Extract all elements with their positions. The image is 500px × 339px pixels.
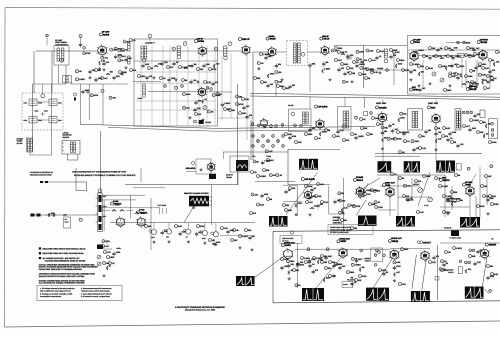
svg-text:.001: .001 bbox=[496, 61, 500, 64]
svg-text:6.8K: 6.8K bbox=[328, 255, 333, 258]
svg-text:.01: .01 bbox=[204, 98, 207, 101]
svg-text:470K: 470K bbox=[270, 73, 275, 76]
svg-text:CONV: CONV bbox=[138, 97, 144, 100]
svg-text:.047: .047 bbox=[216, 63, 220, 66]
svg-text:.01: .01 bbox=[112, 262, 115, 265]
svg-text:6AU6: 6AU6 bbox=[323, 38, 330, 41]
svg-text:VOL: VOL bbox=[252, 155, 256, 158]
svg-text:470: 470 bbox=[364, 59, 367, 62]
svg-text:1500: 1500 bbox=[242, 112, 246, 115]
svg-text:1 MEG: 1 MEG bbox=[442, 185, 449, 188]
svg-text:.05: .05 bbox=[402, 151, 405, 154]
svg-text:.047: .047 bbox=[420, 211, 424, 214]
svg-text:.001: .001 bbox=[284, 265, 288, 268]
svg-text:2.2K: 2.2K bbox=[432, 261, 437, 264]
svg-text:6.8K: 6.8K bbox=[446, 127, 451, 130]
svg-text:1500: 1500 bbox=[446, 211, 450, 214]
svg-text:68: 68 bbox=[109, 265, 111, 268]
svg-text:1500: 1500 bbox=[344, 63, 348, 66]
svg-text:VERT OUT: VERT OUT bbox=[385, 181, 396, 184]
svg-text:68: 68 bbox=[314, 187, 316, 190]
svg-text:4 PO3: 4 PO3 bbox=[113, 200, 118, 203]
svg-text:SND IF: SND IF bbox=[322, 35, 329, 38]
svg-text:A PHOTOFACT STANDARD NOTATION: A PHOTOFACT STANDARD NOTATION SCHEMATIC bbox=[175, 306, 225, 309]
svg-text:2.2K: 2.2K bbox=[164, 61, 169, 64]
svg-text:.01: .01 bbox=[354, 281, 357, 284]
svg-text:SPEAKER: SPEAKER bbox=[186, 167, 196, 170]
svg-text:.047: .047 bbox=[246, 105, 250, 108]
svg-text:150: 150 bbox=[324, 261, 327, 264]
svg-text:470K: 470K bbox=[200, 225, 205, 228]
svg-text:.001: .001 bbox=[466, 81, 470, 84]
svg-text:.047: .047 bbox=[367, 193, 371, 196]
svg-text:CONTROL: CONTROL bbox=[446, 200, 455, 203]
svg-text:.001: .001 bbox=[460, 143, 464, 146]
svg-text:.047: .047 bbox=[396, 271, 400, 274]
svg-text:HORIZ OUT: HORIZ OUT bbox=[391, 237, 402, 240]
svg-text:150: 150 bbox=[421, 71, 424, 74]
svg-text:PHONO: PHONO bbox=[377, 67, 384, 70]
svg-text:470: 470 bbox=[436, 255, 439, 258]
svg-text:1500: 1500 bbox=[230, 229, 234, 232]
svg-text:.001: .001 bbox=[122, 55, 126, 58]
svg-text:5%: 5% bbox=[422, 135, 425, 138]
svg-text:150: 150 bbox=[292, 84, 295, 87]
svg-text:.01: .01 bbox=[163, 77, 166, 80]
svg-text:470: 470 bbox=[315, 269, 318, 272]
svg-text:.05: .05 bbox=[438, 177, 441, 180]
svg-text:.001: .001 bbox=[407, 185, 411, 188]
svg-text:68: 68 bbox=[386, 271, 388, 274]
svg-text:1 MEG: 1 MEG bbox=[324, 68, 331, 71]
svg-text:470K: 470K bbox=[239, 103, 244, 106]
svg-text:5%: 5% bbox=[344, 219, 347, 222]
svg-text:470K: 470K bbox=[490, 275, 495, 278]
svg-text:68: 68 bbox=[185, 79, 187, 82]
svg-text:FROM POINT INDICATED TO COMMON: FROM POINT INDICATED TO COMMON GROUND. bbox=[39, 268, 83, 271]
svg-text:.05: .05 bbox=[450, 137, 453, 140]
svg-text:.047: .047 bbox=[298, 141, 302, 144]
svg-text:2.2K: 2.2K bbox=[374, 71, 379, 74]
svg-text:1500: 1500 bbox=[482, 63, 486, 66]
svg-text:470: 470 bbox=[133, 69, 136, 72]
svg-text:1 MEG: 1 MEG bbox=[455, 55, 462, 58]
svg-text:470K: 470K bbox=[480, 205, 485, 208]
svg-text:470K: 470K bbox=[396, 265, 401, 268]
svg-text:.01: .01 bbox=[407, 140, 410, 143]
svg-text:6BQ6: 6BQ6 bbox=[392, 240, 399, 243]
svg-text:.01: .01 bbox=[379, 55, 382, 58]
svg-text:150: 150 bbox=[484, 185, 487, 188]
svg-text:68: 68 bbox=[438, 127, 440, 130]
svg-text:1500: 1500 bbox=[290, 260, 294, 263]
svg-text:1500: 1500 bbox=[350, 271, 354, 274]
svg-text:470: 470 bbox=[106, 61, 109, 64]
svg-text:150: 150 bbox=[354, 227, 357, 230]
svg-text:RF AMP: RF AMP bbox=[102, 31, 110, 34]
svg-text:1 MEG: 1 MEG bbox=[264, 160, 271, 163]
svg-text:68: 68 bbox=[256, 160, 258, 163]
svg-text:.047: .047 bbox=[332, 275, 336, 278]
svg-text:.05: .05 bbox=[124, 71, 127, 74]
svg-text:.047: .047 bbox=[342, 265, 346, 268]
svg-text:6S4: 6S4 bbox=[386, 184, 391, 187]
svg-text:1 MEG: 1 MEG bbox=[304, 257, 311, 260]
svg-text:.01: .01 bbox=[345, 51, 348, 54]
svg-text:1 MEG: 1 MEG bbox=[242, 235, 249, 238]
svg-text:470: 470 bbox=[346, 139, 349, 142]
svg-text:5%: 5% bbox=[326, 61, 329, 64]
svg-text:.001: .001 bbox=[336, 135, 340, 138]
svg-text:68: 68 bbox=[219, 93, 221, 96]
svg-text:1500: 1500 bbox=[447, 89, 451, 92]
svg-text:470: 470 bbox=[198, 113, 201, 116]
svg-text:.001: .001 bbox=[193, 79, 197, 82]
svg-text:1500: 1500 bbox=[110, 256, 114, 259]
svg-text:.001: .001 bbox=[350, 54, 354, 57]
svg-text:HORIZ OSC: HORIZ OSC bbox=[284, 242, 295, 245]
svg-text:117VAC: 117VAC bbox=[17, 142, 24, 145]
svg-text:.05: .05 bbox=[448, 251, 451, 254]
svg-text:2.2K: 2.2K bbox=[197, 107, 202, 110]
svg-text:2.2K: 2.2K bbox=[477, 261, 482, 264]
svg-text:TO TUNER: TO TUNER bbox=[158, 204, 167, 207]
svg-text:150: 150 bbox=[477, 53, 480, 56]
svg-text:.01: .01 bbox=[125, 48, 128, 51]
svg-text:100K: 100K bbox=[466, 41, 471, 44]
svg-text:68: 68 bbox=[359, 58, 361, 61]
svg-text:470: 470 bbox=[308, 261, 311, 264]
svg-text:100K: 100K bbox=[145, 63, 150, 66]
svg-text:RECEIVER MAKES IT POSSIBLE TO: RECEIVER MAKES IT POSSIBLE TO BRING YOU … bbox=[74, 174, 136, 177]
svg-text:.001: .001 bbox=[254, 193, 258, 196]
svg-text:68: 68 bbox=[454, 141, 456, 144]
svg-text:68: 68 bbox=[458, 174, 460, 177]
svg-text:68: 68 bbox=[426, 55, 428, 58]
svg-text:.01: .01 bbox=[486, 133, 489, 136]
svg-text:1500: 1500 bbox=[326, 277, 330, 280]
svg-text:470: 470 bbox=[341, 67, 344, 70]
svg-text:68: 68 bbox=[121, 59, 123, 62]
svg-text:HEIGHT: HEIGHT bbox=[413, 183, 419, 186]
svg-text:150: 150 bbox=[352, 72, 355, 75]
svg-text:LOOKER PT: LOOKER PT bbox=[145, 42, 155, 45]
svg-text:6T8A: 6T8A bbox=[414, 41, 420, 44]
svg-text:2.2K: 2.2K bbox=[269, 150, 274, 153]
svg-text:5%: 5% bbox=[328, 267, 331, 270]
svg-text:470K: 470K bbox=[297, 202, 302, 205]
svg-text:VOLTAGE MEASUREMENTS TAKEN AS: VOLTAGE MEASUREMENTS TAKEN AS NOTED bbox=[45, 259, 87, 262]
svg-text:5%: 5% bbox=[421, 65, 424, 68]
svg-text:470K: 470K bbox=[86, 52, 91, 55]
svg-text:6.8K: 6.8K bbox=[178, 225, 183, 228]
svg-text:100K: 100K bbox=[426, 175, 431, 178]
svg-text:.001: .001 bbox=[158, 63, 162, 66]
svg-text:TRANS: TRANS bbox=[226, 176, 233, 179]
svg-text:470: 470 bbox=[253, 212, 256, 215]
svg-text:VIDEO: VIDEO bbox=[269, 35, 276, 38]
svg-text:.01: .01 bbox=[494, 77, 497, 80]
svg-text:2.2K: 2.2K bbox=[485, 67, 490, 70]
svg-text:ALL CONTROLS AT NORMAL OPERATI: ALL CONTROLS AT NORMAL OPERATING POSITIO… bbox=[39, 282, 85, 285]
svg-text:2.2K: 2.2K bbox=[422, 147, 427, 150]
svg-text:470: 470 bbox=[492, 69, 495, 72]
svg-text:150: 150 bbox=[342, 199, 345, 202]
svg-text:.01: .01 bbox=[487, 87, 490, 90]
svg-text:6BQ7A: 6BQ7A bbox=[114, 203, 122, 206]
svg-text:100K: 100K bbox=[468, 75, 473, 78]
svg-text:470K: 470K bbox=[397, 138, 402, 141]
svg-text:470K: 470K bbox=[94, 94, 99, 97]
svg-text:1 MEG: 1 MEG bbox=[355, 264, 362, 267]
svg-text:2.2K: 2.2K bbox=[438, 138, 443, 141]
svg-text:2.2K: 2.2K bbox=[458, 73, 463, 76]
svg-text:TONE: TONE bbox=[266, 155, 272, 158]
svg-text:.01: .01 bbox=[318, 137, 321, 140]
svg-text:.05: .05 bbox=[79, 70, 82, 73]
svg-text:100K: 100K bbox=[300, 264, 305, 267]
svg-text:100K: 100K bbox=[414, 140, 419, 143]
svg-text:2.2K: 2.2K bbox=[369, 49, 374, 52]
svg-text:150: 150 bbox=[286, 204, 289, 207]
svg-text:6.8K: 6.8K bbox=[288, 209, 293, 212]
svg-text:1 MEG: 1 MEG bbox=[260, 175, 267, 178]
svg-text:470: 470 bbox=[380, 123, 383, 126]
svg-text:68: 68 bbox=[368, 77, 370, 80]
svg-text:100K: 100K bbox=[490, 79, 495, 82]
svg-text:THE COOPERATION OF THE MANUFAC: THE COOPERATION OF THE MANUFACTURER OF T… bbox=[72, 171, 127, 174]
svg-text:2.2K: 2.2K bbox=[260, 203, 265, 206]
svg-text:.047: .047 bbox=[107, 251, 111, 254]
svg-text:2.2K: 2.2K bbox=[128, 57, 133, 60]
svg-text:.001: .001 bbox=[186, 107, 190, 110]
svg-text:68: 68 bbox=[402, 177, 404, 180]
svg-text:1500: 1500 bbox=[308, 133, 312, 136]
svg-text:5%: 5% bbox=[370, 133, 373, 136]
svg-text:AF 6AV6: AF 6AV6 bbox=[318, 106, 328, 109]
svg-text:6.8K: 6.8K bbox=[206, 63, 211, 66]
svg-text:VERT OSC: VERT OSC bbox=[376, 102, 387, 105]
svg-text:.05: .05 bbox=[354, 133, 357, 136]
svg-text:100K: 100K bbox=[116, 251, 121, 254]
svg-text:.01: .01 bbox=[212, 239, 215, 242]
svg-text:68: 68 bbox=[328, 129, 330, 132]
svg-text:6AG5: 6AG5 bbox=[270, 38, 277, 41]
svg-text:.001: .001 bbox=[372, 59, 376, 62]
svg-text:.001: .001 bbox=[164, 230, 168, 233]
svg-text:6.8K: 6.8K bbox=[454, 47, 459, 50]
svg-text:100K: 100K bbox=[264, 193, 269, 196]
svg-text:150: 150 bbox=[270, 83, 273, 86]
svg-text:5%: 5% bbox=[483, 121, 486, 124]
svg-text:6BQ7A: 6BQ7A bbox=[140, 211, 148, 214]
svg-text:100K: 100K bbox=[492, 141, 497, 144]
svg-text:100K: 100K bbox=[322, 131, 327, 134]
svg-text:150: 150 bbox=[428, 129, 431, 132]
svg-text:.047: .047 bbox=[105, 245, 109, 248]
svg-text:470: 470 bbox=[418, 180, 421, 183]
svg-text:68: 68 bbox=[473, 70, 475, 73]
svg-text:1 MEG: 1 MEG bbox=[359, 63, 366, 66]
svg-text:6W4: 6W4 bbox=[466, 184, 471, 187]
svg-text:HORIZ: HORIZ bbox=[333, 216, 340, 219]
svg-text:.05: .05 bbox=[392, 123, 395, 126]
svg-text:5%: 5% bbox=[296, 269, 299, 272]
svg-text:.05: .05 bbox=[261, 62, 264, 65]
svg-text:.05: .05 bbox=[279, 174, 282, 177]
svg-text:AF 6AK5: AF 6AK5 bbox=[305, 178, 315, 181]
svg-text:.047: .047 bbox=[309, 201, 313, 204]
svg-text:.001: .001 bbox=[438, 131, 442, 134]
svg-text:470: 470 bbox=[320, 203, 323, 206]
svg-text:150: 150 bbox=[110, 71, 113, 74]
svg-text:.047: .047 bbox=[422, 87, 426, 90]
svg-text:1 MEG: 1 MEG bbox=[418, 49, 425, 52]
svg-text:2.2K: 2.2K bbox=[324, 201, 329, 204]
svg-text:6CB6: 6CB6 bbox=[198, 40, 205, 43]
svg-text:100K: 100K bbox=[362, 73, 367, 76]
svg-text:PHASE: PHASE bbox=[333, 219, 340, 222]
svg-text:100K: 100K bbox=[375, 117, 380, 120]
svg-text:.047: .047 bbox=[466, 125, 470, 128]
svg-text:470: 470 bbox=[198, 231, 201, 234]
svg-text:5%: 5% bbox=[480, 249, 483, 252]
svg-text:470K: 470K bbox=[356, 205, 361, 208]
svg-text:1 MEG: 1 MEG bbox=[413, 63, 420, 66]
svg-text:1500: 1500 bbox=[338, 47, 342, 50]
svg-text:+135V: +135V bbox=[116, 247, 122, 250]
svg-text:100K: 100K bbox=[308, 185, 313, 188]
svg-text:.001: .001 bbox=[270, 159, 274, 162]
svg-text:.01: .01 bbox=[288, 189, 291, 192]
svg-text:EARLIER PRODUCTION RUNS. SEE P: EARLIER PRODUCTION RUNS. SEE PARTS LISTI… bbox=[39, 275, 85, 278]
svg-text:470: 470 bbox=[416, 147, 419, 150]
svg-text:.001: .001 bbox=[337, 199, 341, 202]
svg-text:68: 68 bbox=[492, 59, 494, 62]
svg-text:6AF4: 6AF4 bbox=[285, 244, 291, 247]
svg-text:6AQ5A: 6AQ5A bbox=[379, 106, 387, 109]
svg-text:5%: 5% bbox=[98, 69, 101, 72]
svg-text:2.2K: 2.2K bbox=[438, 55, 443, 58]
svg-text:1500: 1500 bbox=[186, 93, 190, 96]
svg-text:150: 150 bbox=[384, 137, 387, 140]
svg-text:470K: 470K bbox=[405, 69, 410, 72]
svg-text:470K: 470K bbox=[494, 203, 499, 206]
svg-text:6AQ5: 6AQ5 bbox=[481, 41, 488, 44]
svg-text:.01: .01 bbox=[377, 201, 380, 204]
svg-text:100K: 100K bbox=[378, 206, 383, 209]
svg-text:1500: 1500 bbox=[400, 117, 404, 120]
svg-text:6AX4: 6AX4 bbox=[443, 179, 450, 182]
svg-text:.05: .05 bbox=[211, 110, 214, 113]
svg-text:6S4: 6S4 bbox=[431, 106, 436, 109]
svg-text:2.2K: 2.2K bbox=[182, 231, 187, 234]
svg-text:.001: .001 bbox=[320, 183, 324, 186]
svg-text:6.8K: 6.8K bbox=[396, 261, 401, 264]
svg-text:5%: 5% bbox=[278, 63, 281, 66]
svg-text:68: 68 bbox=[270, 198, 272, 201]
svg-text:5%: 5% bbox=[341, 192, 344, 195]
svg-text:5%: 5% bbox=[232, 109, 235, 112]
svg-text:1 MEG: 1 MEG bbox=[79, 78, 86, 81]
svg-text:6.8K: 6.8K bbox=[492, 195, 497, 198]
svg-text:.01: .01 bbox=[394, 173, 397, 176]
svg-text:1 MEG: 1 MEG bbox=[366, 189, 373, 192]
svg-text:6.8K: 6.8K bbox=[380, 50, 385, 53]
svg-text:5%: 5% bbox=[194, 63, 197, 66]
svg-text:.05: .05 bbox=[355, 258, 358, 261]
svg-text:470: 470 bbox=[445, 135, 448, 138]
svg-text:150: 150 bbox=[448, 47, 451, 50]
svg-text:470K: 470K bbox=[105, 240, 110, 243]
svg-text:.001: .001 bbox=[402, 283, 406, 286]
svg-text:2.2K: 2.2K bbox=[344, 207, 349, 210]
svg-text:.05: .05 bbox=[312, 263, 315, 266]
svg-text:150: 150 bbox=[148, 225, 151, 228]
svg-text:5%: 5% bbox=[384, 130, 387, 133]
svg-text:CHAN SELECT: CHAN SELECT bbox=[55, 43, 68, 46]
svg-text:.047: .047 bbox=[338, 59, 342, 62]
svg-text:SWITCH: SWITCH bbox=[63, 136, 70, 139]
svg-text:©Howard W. Sams & Co., Inc. 19: ©Howard W. Sams & Co., Inc. 1954 bbox=[185, 309, 215, 312]
svg-text:5%: 5% bbox=[362, 266, 365, 269]
svg-text:5%: 5% bbox=[440, 47, 443, 50]
svg-text:470K: 470K bbox=[212, 68, 217, 71]
svg-text:150: 150 bbox=[488, 123, 491, 126]
svg-text:INDICATES ITEMS NOT USED ON SO: INDICATES ITEMS NOT USED ON SOME RUNS bbox=[43, 252, 85, 255]
svg-text:1 MEG: 1 MEG bbox=[456, 247, 463, 250]
svg-text:.05: .05 bbox=[362, 195, 365, 198]
svg-text:1 MEG: 1 MEG bbox=[224, 102, 231, 105]
svg-text:68: 68 bbox=[474, 81, 476, 84]
svg-text:1B3GT: 1B3GT bbox=[489, 244, 497, 247]
svg-text:68: 68 bbox=[298, 284, 300, 287]
svg-text:.05: .05 bbox=[347, 71, 350, 74]
svg-text:6W4GT: 6W4GT bbox=[423, 242, 432, 245]
svg-text:6.8K: 6.8K bbox=[116, 75, 121, 78]
svg-text:68: 68 bbox=[446, 262, 448, 265]
svg-text:.05: .05 bbox=[236, 229, 239, 232]
svg-text:6SN7: 6SN7 bbox=[341, 240, 347, 243]
svg-text:1500: 1500 bbox=[472, 127, 476, 130]
svg-text:1 MEG: 1 MEG bbox=[358, 135, 365, 138]
svg-text:150: 150 bbox=[278, 71, 281, 74]
svg-text:2.2K: 2.2K bbox=[340, 129, 345, 132]
svg-text:.047: .047 bbox=[476, 47, 480, 50]
svg-text:.047: .047 bbox=[104, 77, 108, 80]
svg-text:6.8K: 6.8K bbox=[429, 67, 434, 70]
svg-text:.05: .05 bbox=[346, 81, 349, 84]
svg-text:4 PO3: 4 PO3 bbox=[139, 209, 144, 212]
svg-text:6AL5: 6AL5 bbox=[357, 179, 364, 182]
svg-text:470K: 470K bbox=[362, 275, 367, 278]
svg-text:.047: .047 bbox=[224, 227, 228, 230]
svg-text:1 MEG: 1 MEG bbox=[473, 119, 480, 122]
svg-text:6AG5: 6AG5 bbox=[103, 33, 110, 36]
svg-text:1500: 1500 bbox=[141, 75, 145, 78]
svg-text:470: 470 bbox=[170, 66, 173, 69]
svg-text:CONTROL: CONTROL bbox=[333, 222, 342, 225]
svg-text:6T8A: 6T8A bbox=[413, 89, 419, 92]
svg-text:INDICATES ITEMS WHICH HAVE SPE: INDICATES ITEMS WHICH HAVE SPECIAL VALUE bbox=[43, 247, 86, 250]
svg-text:.047: .047 bbox=[396, 51, 400, 54]
svg-text:100K: 100K bbox=[398, 63, 403, 66]
svg-text:.05: .05 bbox=[254, 171, 257, 174]
svg-text:REMOTE CHASSIS SOCKET: REMOTE CHASSIS SOCKET bbox=[184, 192, 209, 195]
svg-text:.001: .001 bbox=[104, 57, 108, 60]
svg-text:.01: .01 bbox=[363, 118, 366, 121]
svg-text:2.2K: 2.2K bbox=[409, 198, 414, 201]
